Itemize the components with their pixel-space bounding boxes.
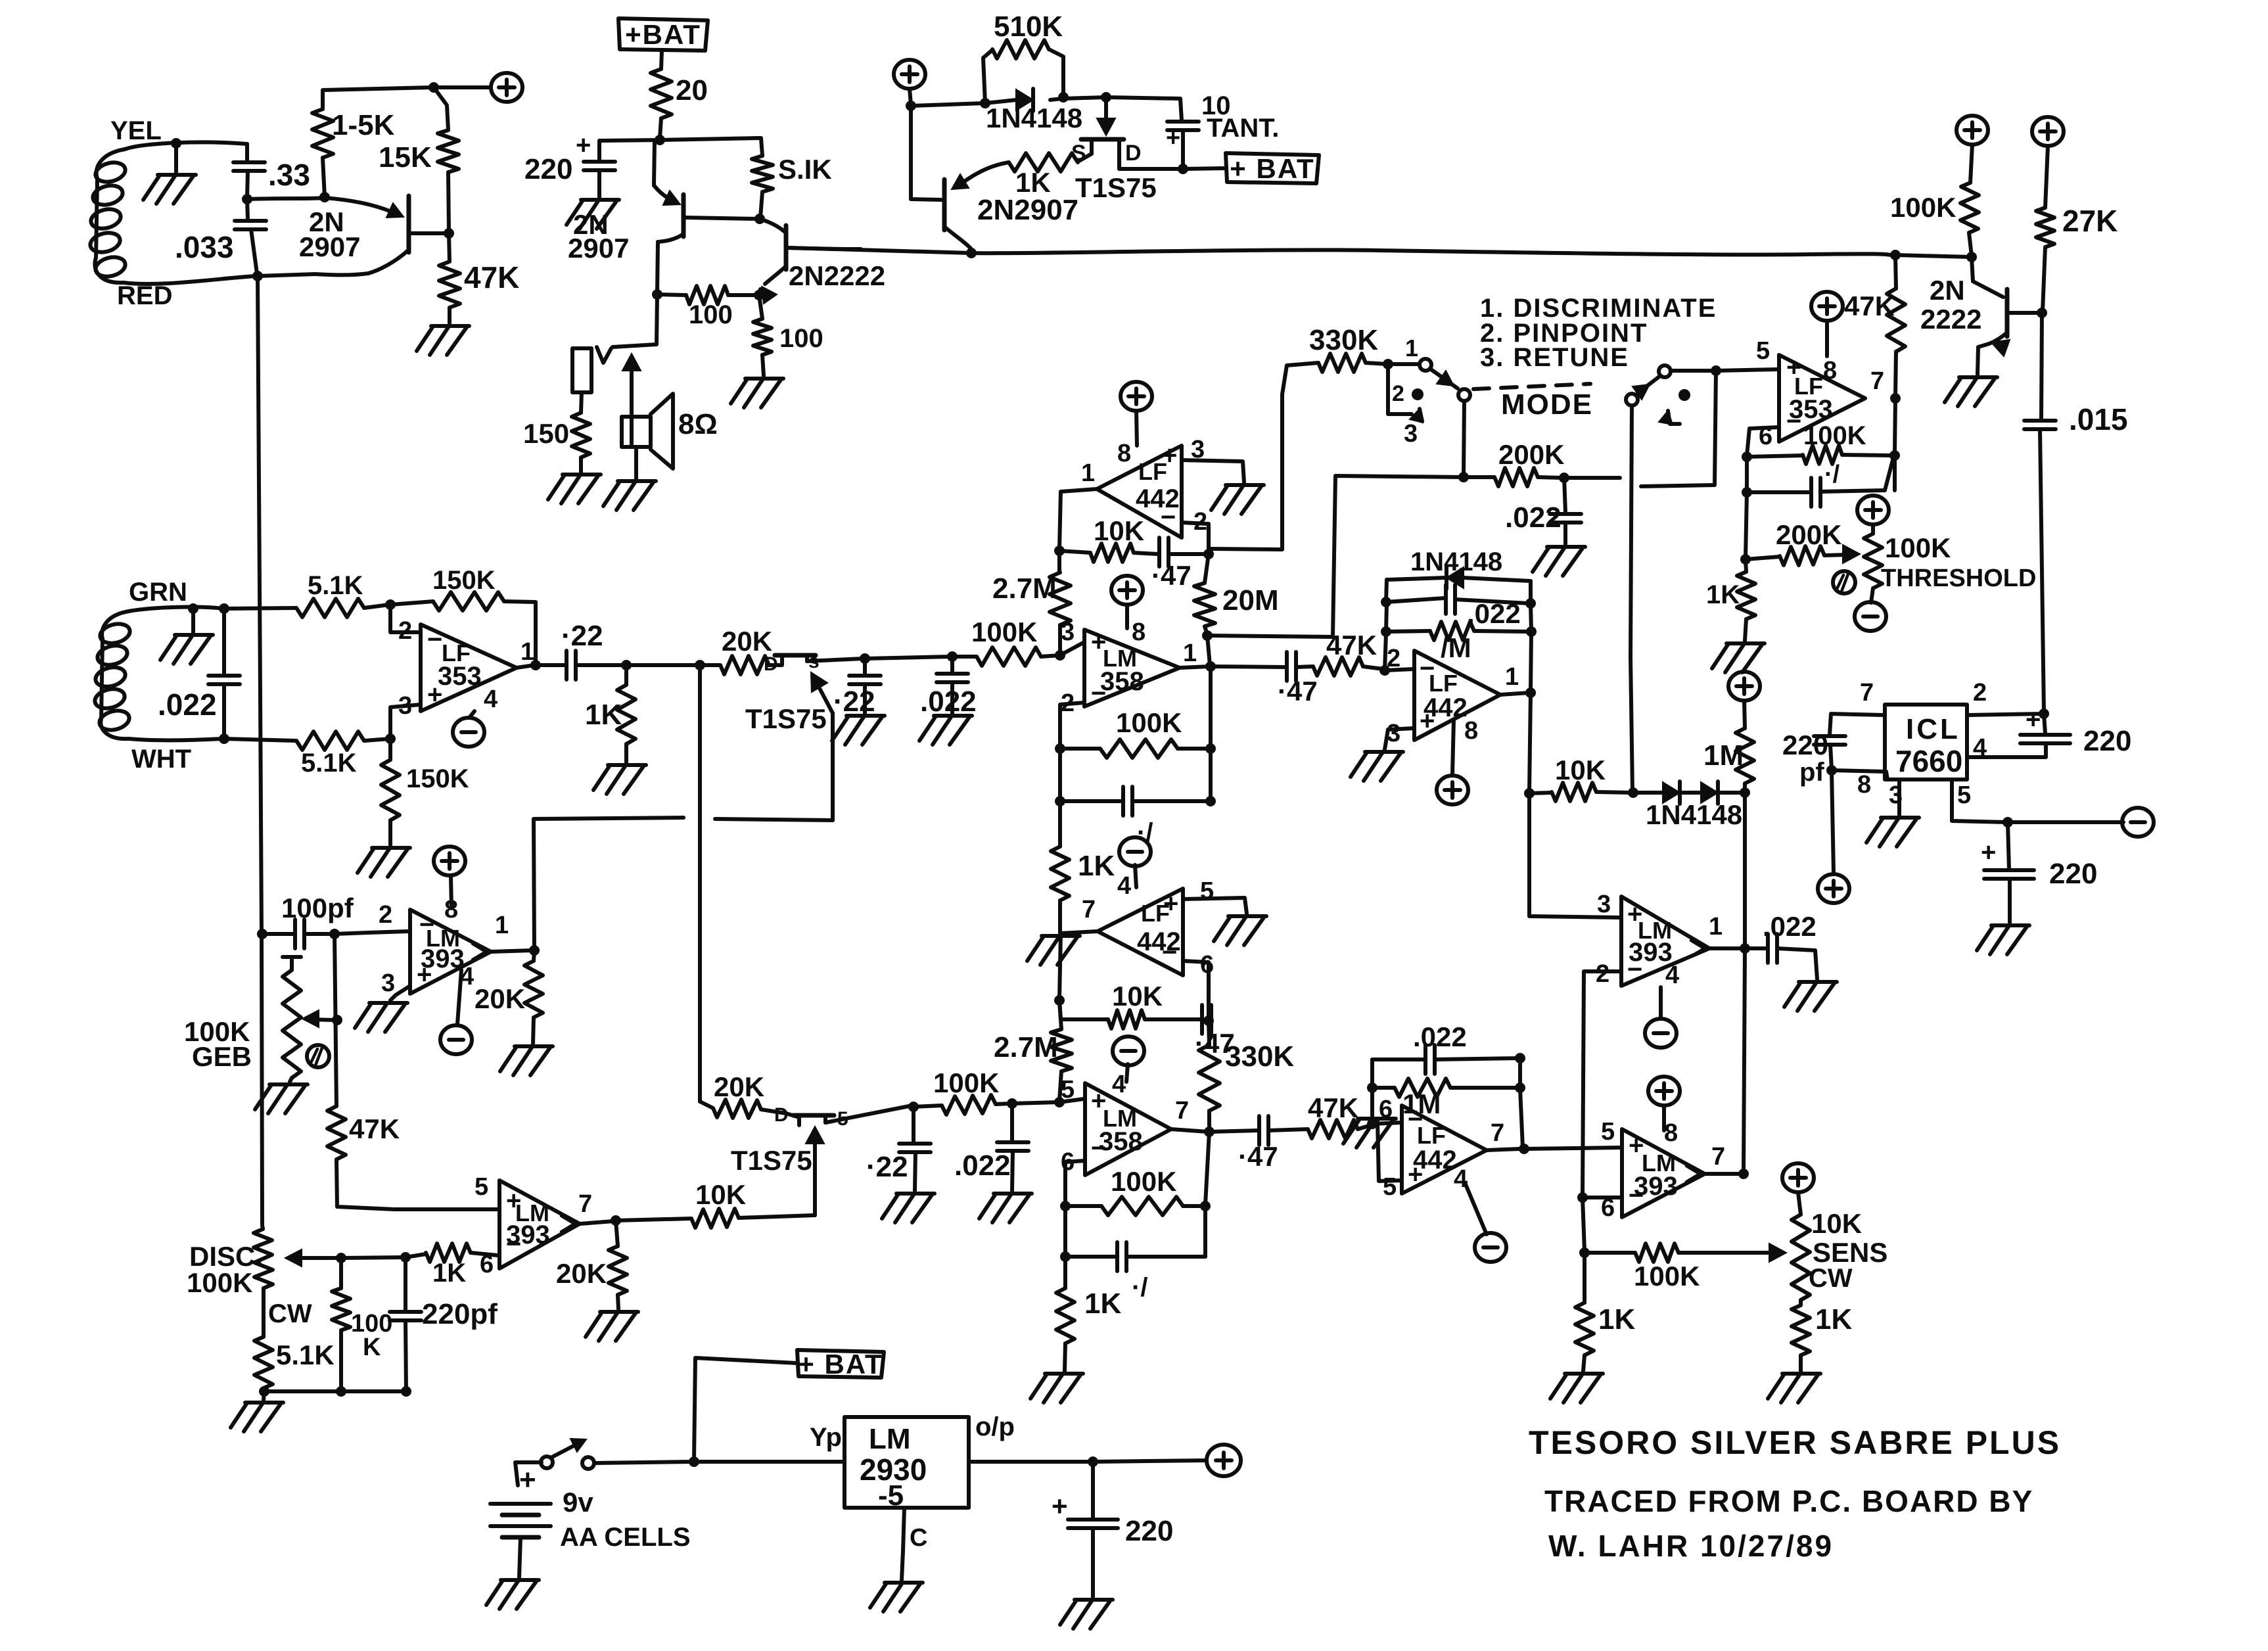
svg-text:2907: 2907: [299, 231, 360, 262]
resistor 200K (mode): [1464, 439, 1564, 486]
resistor 100K (U7 fb): [1747, 421, 1893, 464]
node BL: [1515, 1053, 1525, 1063]
svg-text:1M: 1M: [1703, 739, 1744, 772]
svg-text:+ BAT: + BAT: [798, 1349, 883, 1380]
svg-text:100K: 100K: [1885, 532, 1951, 563]
wire 330K left down to integrator: [1211, 363, 1318, 549]
wire divider down: [1583, 1198, 1585, 1251]
node CE (pin3 node): [385, 733, 396, 744]
diode 1N4148 (fb1): [1387, 547, 1531, 589]
fb right riser: [1529, 581, 1531, 792]
U3a fb: pin2 wire: [1060, 703, 1084, 747]
svg-text:8: 8: [1664, 1119, 1678, 1147]
FET Q4 TIS75 (battery switch): [1015, 139, 1157, 203]
resistor 10K (det): [1529, 755, 1632, 801]
svg-text:YEL: YEL: [110, 116, 162, 145]
node CA (GRN): [188, 603, 198, 614]
U2a pin3 to ground: [1182, 460, 1264, 514]
trimmer mark (threshold): [1833, 571, 1855, 593]
svg-text:5.1K: 5.1K: [276, 1339, 335, 1370]
resistor 100 (v): [753, 295, 823, 376]
svg-text:220: 220: [524, 153, 572, 185]
capacitor .022 (ch2): [954, 1104, 1029, 1191]
svg-text:1: 1: [1081, 459, 1095, 487]
svg-text:100K: 100K: [1111, 1166, 1176, 1197]
svg-text:5: 5: [1957, 781, 1971, 809]
comparator U6b LM393 (DISC): [474, 1173, 592, 1278]
svg-text:10K: 10K: [1811, 1208, 1862, 1239]
node BI: [1060, 1251, 1071, 1262]
resistor 47K (osc): [439, 233, 519, 323]
power +V (U7): [1811, 292, 1843, 356]
node L: [1058, 92, 1069, 103]
svg-text:1: 1: [1183, 639, 1197, 667]
svg-text:7: 7: [1711, 1143, 1725, 1171]
wiper row wire: [341, 1257, 404, 1258]
U4b output wire: [1487, 1149, 1520, 1150]
+BAT rail (drain): [1226, 153, 1319, 184]
ground under 220 out: [1977, 925, 2029, 954]
ground under GEB pot: [255, 1084, 308, 1113]
resistor 100K (ch1): [952, 616, 1041, 666]
node BN: [1519, 1144, 1529, 1154]
resistor 200K (threshold): [1746, 519, 1860, 565]
svg-text:5.1K: 5.1K: [308, 571, 363, 600]
wire bus to node EG: [1895, 255, 1972, 257]
svg-text:·47: ·47: [1278, 676, 1318, 707]
capacitor .47 (ch2 out): [1209, 1116, 1308, 1172]
switch S1a pos2/3 bracket: [1388, 364, 1423, 448]
svg-text:S.IK: S.IK: [778, 154, 832, 185]
svg-text:7: 7: [1860, 679, 1874, 707]
U7 pin6 wire: [1747, 427, 1779, 455]
resistor 1M (fb2): [1372, 1079, 1519, 1119]
resistor 47K (ch2): [1308, 1092, 1371, 1138]
diode 1N4148 a: [1633, 781, 1680, 804]
comparator U5b LM393: [1601, 1118, 1725, 1222]
node BB: [1007, 1098, 1017, 1109]
node M (FET gate): [1101, 92, 1111, 103]
U1a pin2 stub: [390, 606, 421, 632]
svg-text:47K: 47K: [1844, 291, 1895, 321]
svg-text:1M: 1M: [1402, 1088, 1441, 1119]
node: coil-top tap junction: [171, 138, 181, 149]
U9 ground pin: [870, 1508, 923, 1612]
transistor Q2 2N2907 (audio driver): [568, 142, 758, 293]
V contact mark: [597, 347, 611, 363]
svg-text:T1S75: T1S75: [1075, 172, 1157, 203]
svg-text:CW: CW: [268, 1299, 312, 1328]
resistor 100 (h): [657, 286, 758, 329]
svg-text:GEB: GEB: [192, 1041, 252, 1072]
svg-text:220: 220: [2049, 858, 2097, 890]
ground under .022: [1533, 547, 1585, 576]
RX coil L2 (GRN/WHT): [93, 578, 224, 774]
ground under 220: [567, 200, 619, 229]
node AH: [1381, 626, 1391, 637]
power +V (clamp): [1728, 672, 1760, 701]
U2a pin2 wire: [1182, 523, 1209, 553]
svg-text:27K: 27K: [2062, 204, 2118, 238]
svg-text:10K: 10K: [1094, 515, 1144, 546]
svg-text:2.7M: 2.7M: [992, 572, 1057, 605]
svg-text:1-5K: 1-5K: [332, 109, 395, 141]
svg-text:.022: .022: [954, 1150, 1011, 1182]
resistor 20M: [1194, 554, 1279, 634]
resistor 1K (div): [1575, 1253, 1635, 1371]
svg-text:AA CELLS: AA CELLS: [560, 1523, 691, 1552]
resistor 1K (threshold): [1706, 559, 1755, 641]
wire speaker to ground: [634, 447, 638, 478]
svg-text:·22: ·22: [866, 1151, 908, 1183]
op-amp U2a LF442 (integrator 1): [1081, 436, 1207, 538]
resistor 510K: [983, 11, 1063, 103]
ground under U6b 20K: [586, 1312, 638, 1341]
svg-text:T1S75: T1S75: [745, 703, 827, 734]
power +V (U4a): [1437, 719, 1468, 804]
potentiometer 100K GEB: [184, 957, 336, 1082]
node U (fb left): [1054, 546, 1065, 556]
svg-text:200K: 200K: [1498, 439, 1564, 470]
resistor 100K (U3b fb): [1065, 1166, 1204, 1215]
svg-text:.022: .022: [1505, 501, 1562, 534]
svg-text:pf: pf: [1799, 758, 1824, 787]
wire node T L-stub: [1641, 371, 1716, 486]
resistor 47K (GEB): [327, 934, 400, 1159]
power -V (7660): [2122, 808, 2154, 837]
ground under 20K: [500, 1046, 553, 1075]
node AN: [1628, 787, 1638, 798]
svg-text:100: 100: [689, 300, 733, 329]
ground under sens 1K: [1768, 1374, 1820, 1403]
svg-text:·22: ·22: [833, 686, 875, 718]
FET Q6 TIS75 (ch1): [745, 651, 827, 734]
wire node BB to U3b pin5: [1012, 1102, 1058, 1104]
switch S1a common wire down: [1464, 401, 1464, 476]
node EJ: [2002, 817, 2013, 827]
switch S1b lever: [1626, 376, 1660, 406]
capacitor .47 (fb2): [1145, 1005, 1235, 1059]
ground under .22 ch2: [882, 1194, 935, 1222]
op-amp U2b LF442 (integrator 2): [1082, 872, 1214, 979]
capacitor .022 (ch1): [920, 657, 977, 718]
U4b fb left riser: [1370, 1089, 1374, 1124]
svg-text:2: 2: [1392, 381, 1404, 406]
capacitor .033: [175, 199, 266, 273]
power -V (U5a): [1645, 987, 1677, 1048]
node AE: [1205, 796, 1216, 806]
svg-text:GRN: GRN: [129, 578, 187, 607]
U3b fb pin6 wire: [1065, 1161, 1085, 1205]
wire 330K to contact 1: [1366, 363, 1418, 364]
svg-text:.033: .033: [175, 230, 234, 264]
power +V (7660): [1818, 770, 1849, 903]
svg-text:3: 3: [1597, 891, 1611, 918]
svg-text:3: 3: [1061, 618, 1075, 646]
capacitor .47 (ch1 out): [1211, 652, 1318, 707]
wire to node F: [660, 118, 661, 139]
node AD (U3a out): [1205, 661, 1216, 672]
fb right riser 2: [1520, 1058, 1523, 1148]
svg-text:+: +: [519, 1464, 536, 1496]
svg-text:T1S75: T1S75: [731, 1145, 812, 1176]
diode 1N4148 b: [1646, 781, 1744, 830]
U6a output wire: [491, 950, 532, 952]
ground under .022 ch2: [979, 1194, 1032, 1222]
svg-text:4: 4: [484, 686, 498, 713]
svg-text:10K: 10K: [1112, 981, 1163, 1012]
ground at coil tap: [143, 143, 196, 204]
svg-text:100pf: 100pf: [281, 893, 354, 923]
svg-text:+: +: [1981, 838, 1996, 867]
node V (fb right): [1203, 549, 1214, 559]
resistor 150K (RX fb): [390, 566, 536, 664]
capacitor 220 (5V): [1052, 1462, 1173, 1597]
U2b pin5 to ground: [1183, 898, 1266, 945]
svg-text:·47: ·47: [1151, 560, 1192, 591]
node AL (U4a out): [1525, 687, 1536, 698]
transistor Q3 2N2222 (audio out): [759, 219, 885, 304]
wire node H to headphone jack: [613, 294, 657, 347]
wire EC down: [1895, 398, 1895, 490]
wire node AA to pin3: [1041, 643, 1083, 657]
resistor 1K (ch1): [1051, 801, 1115, 933]
U6b output wire: [580, 1221, 613, 1224]
svg-text:−: −: [427, 625, 442, 654]
svg-text:8: 8: [1857, 771, 1871, 799]
resistor 1K (disc): [405, 1244, 498, 1288]
comparator U5a LM393: [1596, 891, 1723, 989]
ground under 220 5V: [1060, 1600, 1113, 1629]
capacitor .015: [2024, 313, 2128, 712]
svg-text:+: +: [1163, 889, 1178, 918]
node AA (U3a pin3): [1055, 650, 1065, 661]
capacitor .22 (coupling): [536, 620, 625, 680]
svg-text:220pf: 220pf: [422, 1298, 498, 1330]
svg-text:7660: 7660: [1895, 744, 1962, 778]
svg-text:1K: 1K: [585, 699, 622, 731]
svg-text:100K: 100K: [1890, 192, 1956, 223]
wire node J right: [911, 103, 984, 106]
svg-text:15K: 15K: [379, 141, 432, 174]
node CD (pin2 node): [385, 599, 396, 610]
power -V (U1a): [453, 711, 484, 747]
svg-text:−: −: [1162, 938, 1177, 967]
ground under 100: [731, 379, 783, 407]
svg-text:4: 4: [1112, 1071, 1126, 1098]
capacitor .47 (fb1): [1134, 538, 1207, 591]
power -V (U4b): [1466, 1184, 1506, 1262]
svg-text:−: −: [1091, 1134, 1106, 1163]
wire node C to transistor: [325, 198, 404, 218]
power -V (U6a): [440, 970, 472, 1054]
node EG (bus/100K): [1966, 252, 1977, 262]
resistor 1M (clamp): [1703, 701, 1754, 793]
node AO: [1740, 787, 1750, 798]
node AI: [1381, 597, 1391, 607]
svg-text:20K: 20K: [722, 626, 772, 657]
svg-text:5: 5: [1061, 1076, 1075, 1104]
U4b pin6 stub: [1372, 1123, 1400, 1124]
potentiometer 10K SENS: [1792, 1192, 1887, 1300]
capacitor .22 (ch1): [833, 659, 881, 718]
svg-text:3: 3: [1404, 420, 1418, 448]
svg-text:+: +: [1052, 1491, 1068, 1522]
power switch S2: [541, 1439, 594, 1469]
svg-text:+BAT: +BAT: [625, 19, 701, 50]
svg-text:20K: 20K: [714, 1071, 764, 1102]
svg-text:,022: ,022: [1467, 598, 1521, 629]
resistor 150K (bias): [381, 739, 469, 845]
svg-text:.33: .33: [268, 158, 310, 192]
svg-text:1K: 1K: [1598, 1303, 1635, 1336]
FET Q7 TIS75 (ch2): [731, 1104, 848, 1176]
capacitor .022 (mode): [1505, 478, 1581, 544]
wire to -V: [2008, 820, 2123, 824]
node D: [428, 82, 439, 93]
resistor 100K (ch2): [914, 1067, 1011, 1115]
svg-text:7: 7: [1082, 896, 1096, 923]
node BH: [1200, 1201, 1211, 1211]
stub to pin5: [1059, 1099, 1084, 1102]
svg-text:1: 1: [495, 912, 509, 939]
U1a pin3 stub: [390, 705, 421, 740]
comparator output to Q7 gate: resistor 10K: [616, 1179, 815, 1228]
node J: [906, 101, 916, 111]
resistor 15K: [379, 87, 459, 231]
node BF (U3b out): [1204, 1127, 1215, 1137]
U2b pin6 wire: [1183, 961, 1209, 1018]
svg-text:·22: ·22: [561, 620, 603, 652]
resistor 20: [651, 69, 708, 118]
resistor 330K (fb2): [1199, 1021, 1294, 1130]
wire U6a out to Q6 gate: [534, 818, 833, 950]
U3b output wire: [1171, 1129, 1208, 1132]
svg-text:100K: 100K: [1116, 707, 1182, 738]
svg-text:1: 1: [1505, 663, 1519, 691]
node BM: [1515, 1082, 1525, 1093]
wire 47K to U6b pin5: [336, 1159, 498, 1209]
svg-text:100K: 100K: [971, 616, 1037, 647]
U4a pin2 stub: [1385, 669, 1413, 670]
resistor 20K (ch1): [700, 626, 781, 674]
svg-text:D: D: [774, 1104, 789, 1126]
node F: [655, 135, 665, 145]
wire +BAT to R 20: [661, 51, 662, 69]
svg-text:W. LAHR 10/27/89: W. LAHR 10/27/89: [1548, 1529, 1834, 1563]
wire EB down: [1745, 457, 1749, 491]
wire Q7 to .22 node: [825, 1105, 912, 1123]
node EE: [1742, 487, 1752, 498]
node EC (U7 out): [1890, 393, 1901, 404]
wire to U5b pin5: [1524, 1148, 1621, 1149]
svg-text:2: 2: [379, 901, 392, 929]
node AK: [1526, 626, 1537, 637]
svg-text:5: 5: [1756, 337, 1770, 365]
svg-text:+: +: [1166, 124, 1180, 152]
svg-text:10K: 10K: [1555, 755, 1606, 785]
wire node T to LF353 pin5: [1716, 369, 1777, 371]
op-amp U3b LM358 (demod 2): [1061, 1071, 1189, 1176]
node DC (U6a out): [529, 945, 540, 956]
ground under 150K: [358, 848, 410, 877]
wire 20M node to output node: [1207, 636, 1210, 665]
svg-text:C: C: [910, 1524, 927, 1552]
node I: [754, 290, 764, 300]
capacitor .022 (fb1): [1386, 585, 1529, 629]
svg-text:.022: .022: [1413, 1021, 1467, 1052]
node BJ (U4b pin6): [1367, 1119, 1377, 1129]
wire fb to 330K riser: [1209, 549, 1211, 554]
svg-text:·/: ·/: [1132, 1273, 1147, 1302]
node H (Q2 collector): [652, 289, 662, 300]
capacitor .33: [233, 144, 310, 198]
svg-text:.022: .022: [920, 686, 977, 718]
svg-text:47K: 47K: [1308, 1092, 1358, 1123]
svg-text:1N4148: 1N4148: [1410, 547, 1502, 576]
node DB: [329, 929, 340, 939]
capacitor 100pf: [262, 893, 354, 948]
trimmer mark (GEB): [307, 1045, 329, 1067]
resistor 1.5K: [312, 87, 432, 197]
ground under speaker: [603, 481, 656, 510]
diode 1N4148 (reg): [985, 89, 1082, 133]
capacitor .1 (U7): [1747, 460, 1893, 507]
resistor 10K (fb1): [1059, 515, 1144, 562]
U6a pin2 wire: [335, 931, 409, 934]
svg-text:5: 5: [1383, 1173, 1397, 1201]
Q6 gate wire: [811, 672, 833, 820]
svg-text:100K: 100K: [1634, 1261, 1700, 1291]
capacitor 220 (7660 out): [1981, 822, 2097, 923]
svg-text:D: D: [1125, 141, 1142, 166]
capacitor 220 (audio supply): [524, 131, 660, 197]
ground under .022: [919, 716, 972, 745]
svg-text:1K: 1K: [432, 1259, 466, 1288]
resistor 2.7M (1): [992, 551, 1071, 654]
node AG (U4a pin2): [1379, 665, 1390, 676]
svg-text:-5: -5: [878, 1479, 904, 1512]
svg-text:/M: /M: [1441, 632, 1471, 663]
resistor 1K (sens): [1792, 1300, 1852, 1371]
node R: [1458, 472, 1469, 482]
svg-text:3. RETUNE: 3. RETUNE: [1480, 343, 1629, 372]
wire +BAT to switch node: [694, 1358, 797, 1460]
speaker 8 ohm: [622, 394, 718, 469]
svg-text:−: −: [1786, 407, 1801, 436]
svg-text:2222: 2222: [1920, 304, 1981, 335]
wire node L to gate node: [1063, 97, 1105, 99]
svg-text:442: 442: [1136, 484, 1180, 513]
wire fb left down: [1058, 749, 1062, 800]
U1a output wire: [517, 665, 534, 668]
svg-text:47K: 47K: [1326, 630, 1377, 661]
title text: [1529, 1424, 2061, 1563]
wire node A to 2N2907 base: [247, 198, 325, 199]
resistor 20K (U6b): [556, 1221, 627, 1309]
svg-text:150K: 150K: [432, 566, 496, 595]
power +V (reg): [894, 60, 925, 89]
svg-text:.015: .015: [2069, 402, 2128, 436]
ground at RX tap: [160, 609, 213, 664]
node K: [980, 98, 990, 108]
svg-text:220: 220: [2083, 725, 2131, 757]
svg-text:THRESHOLD: THRESHOLD: [1881, 565, 2036, 592]
svg-text:1N4148: 1N4148: [986, 103, 1082, 133]
node DE (DISC wiper): [336, 1253, 346, 1263]
node FB: [1088, 1456, 1098, 1467]
node X: [695, 660, 705, 670]
